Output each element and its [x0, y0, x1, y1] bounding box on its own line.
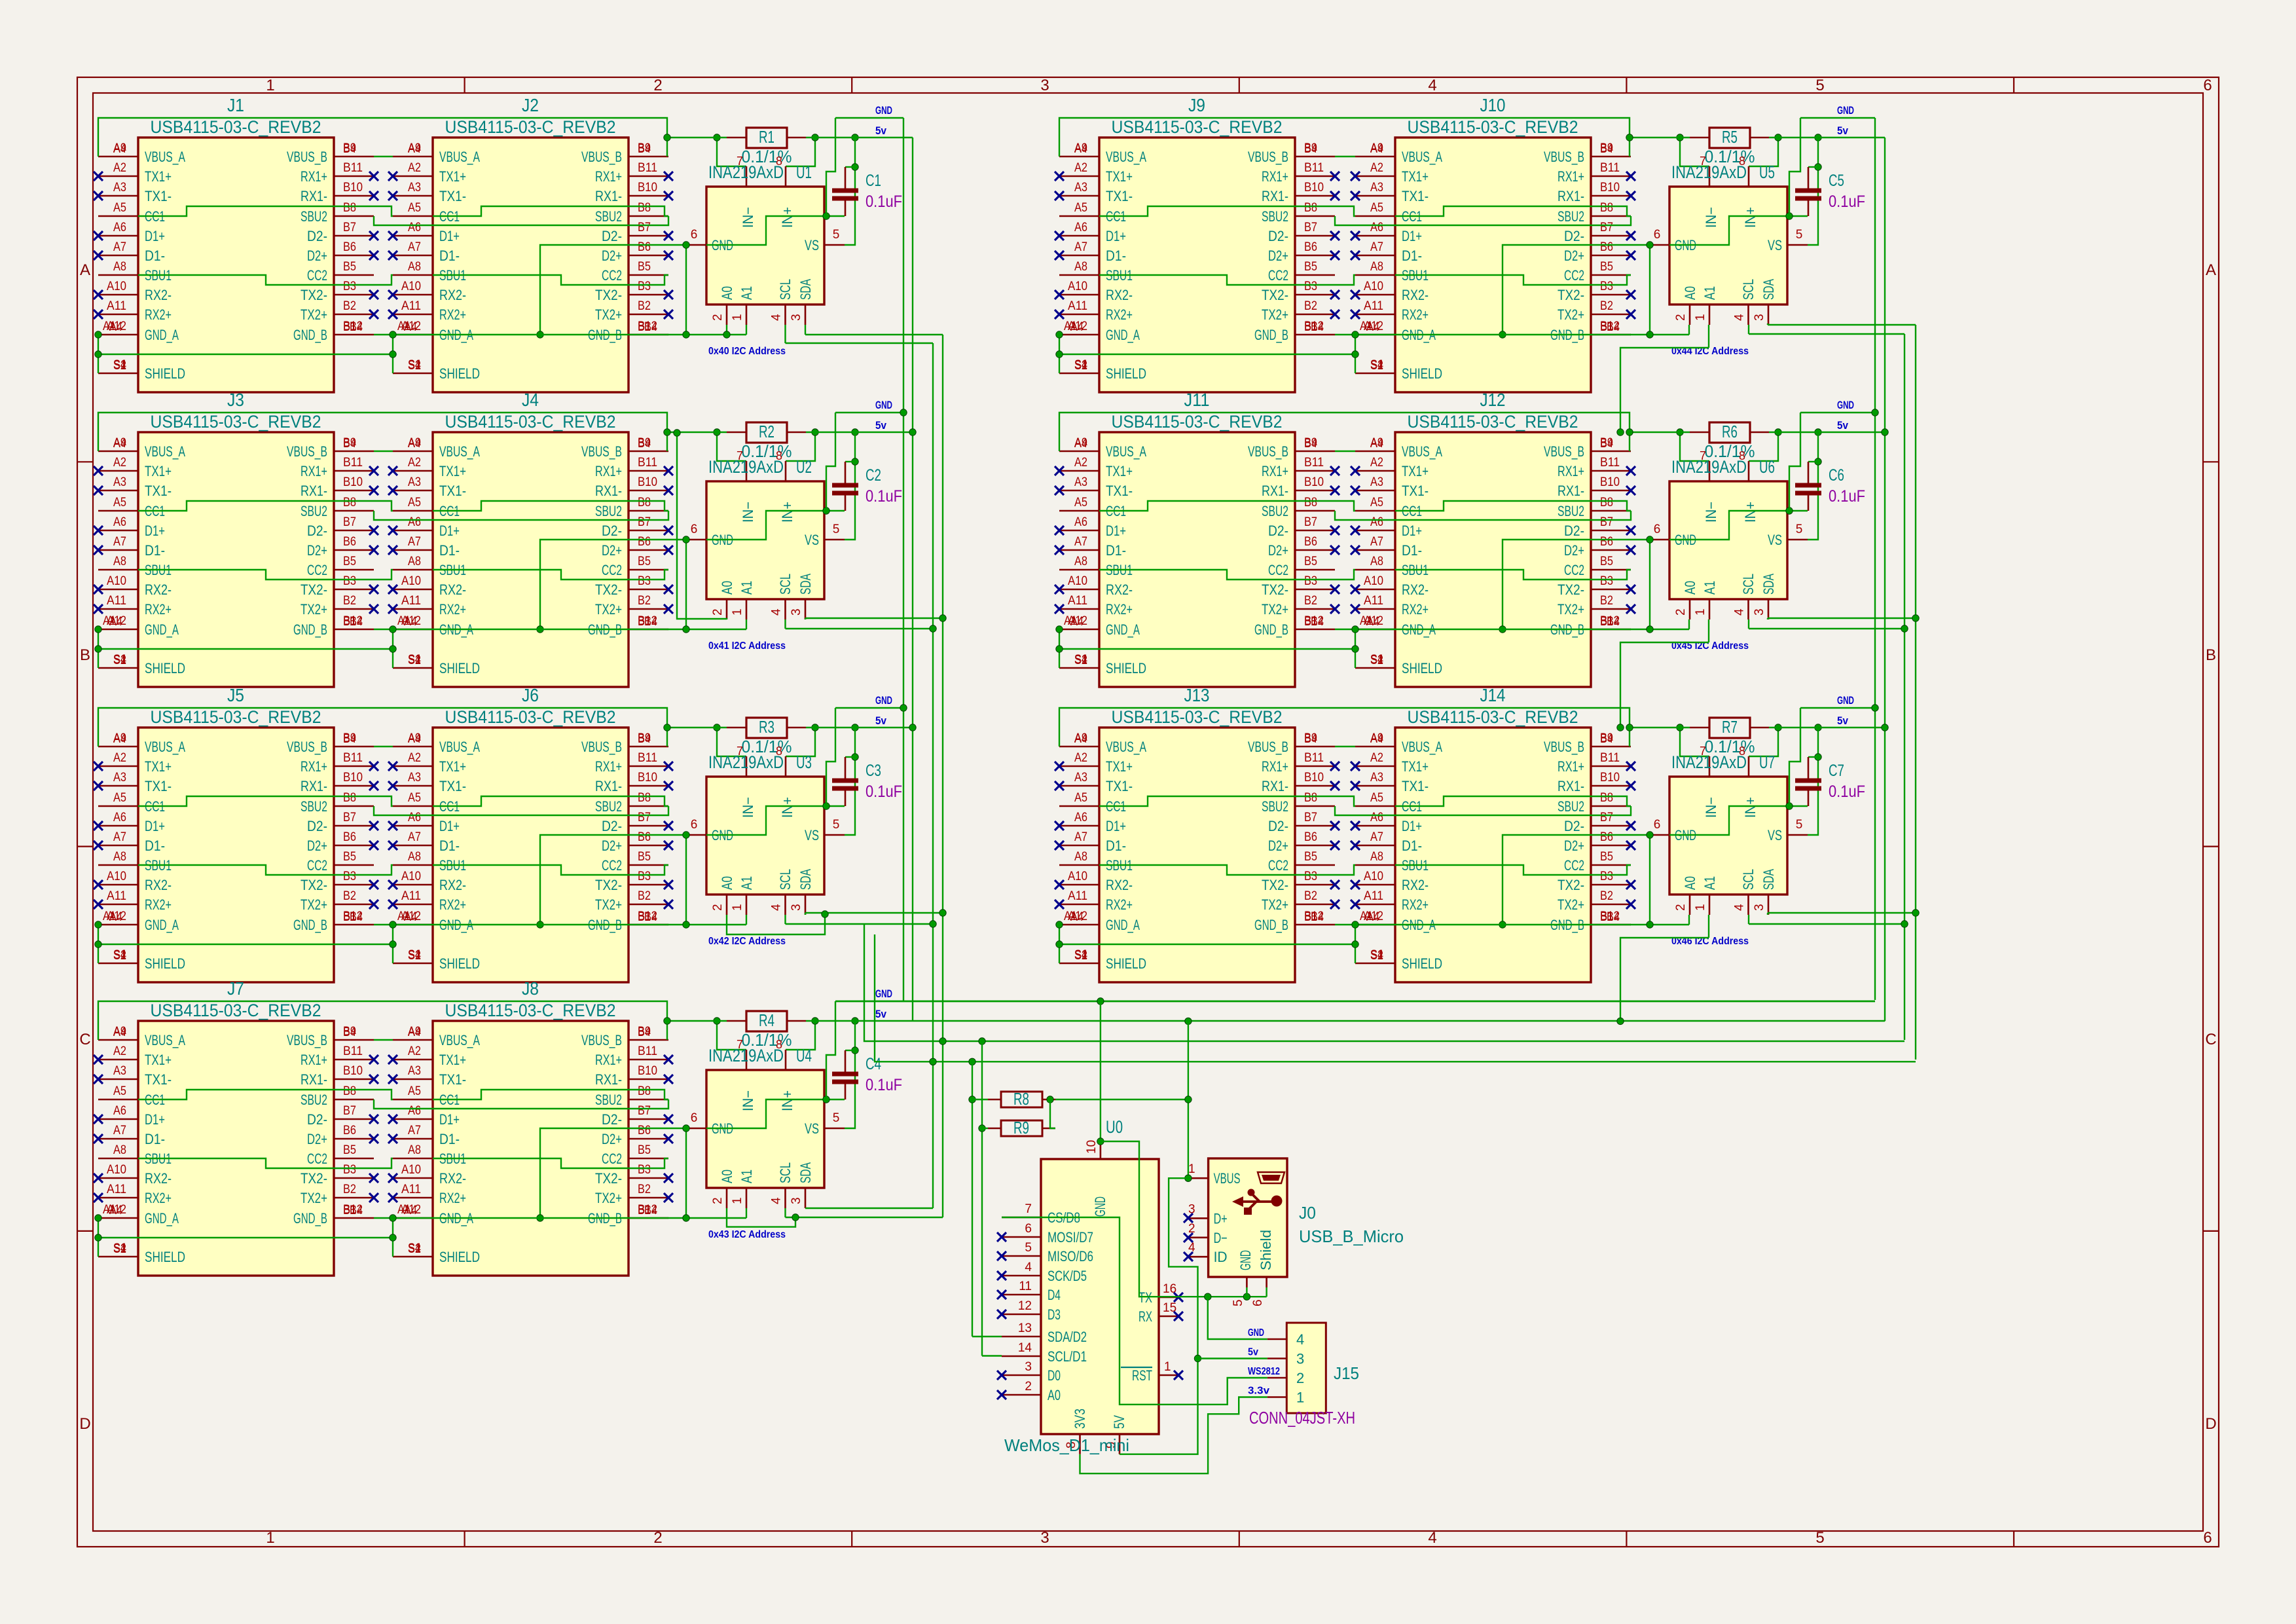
- svg-text:A11: A11: [1068, 889, 1087, 903]
- svg-text:2: 2: [1674, 904, 1688, 911]
- svg-text:J5: J5: [227, 685, 244, 705]
- svg-text:A3: A3: [408, 181, 421, 194]
- svg-text:A11: A11: [1068, 299, 1087, 313]
- svg-text:TX1+: TX1+: [439, 463, 466, 479]
- svg-text:B3: B3: [638, 1163, 651, 1177]
- svg-text:GND: GND: [875, 987, 892, 1000]
- svg-text:A5: A5: [113, 1084, 126, 1098]
- svg-text:B2: B2: [1304, 299, 1317, 313]
- svg-text:1: 1: [731, 904, 744, 911]
- svg-text:4: 4: [1733, 904, 1747, 911]
- svg-text:A7: A7: [408, 535, 421, 549]
- svg-text:A10: A10: [401, 870, 421, 883]
- svg-text:A7: A7: [113, 535, 126, 549]
- svg-text:B10: B10: [638, 475, 657, 489]
- svg-text:B6: B6: [638, 1124, 651, 1137]
- svg-text:B4: B4: [1607, 320, 1620, 334]
- svg-text:IN+: IN+: [779, 207, 795, 228]
- svg-text:1: 1: [731, 608, 744, 616]
- svg-text:USB4115-03-C_REVB2: USB4115-03-C_REVB2: [445, 707, 616, 727]
- svg-text:S4: S4: [113, 653, 126, 667]
- svg-text:C6: C6: [1829, 466, 1844, 485]
- svg-text:B5: B5: [638, 555, 651, 568]
- svg-text:D2-: D2-: [307, 1111, 327, 1128]
- svg-text:TX2-: TX2-: [1558, 287, 1584, 303]
- svg-text:TX2-: TX2-: [301, 581, 327, 598]
- svg-text:RX1-: RX1-: [1262, 778, 1288, 794]
- svg-text:A5: A5: [1370, 201, 1383, 215]
- svg-text:A5: A5: [113, 201, 126, 215]
- svg-text:A4: A4: [408, 1025, 421, 1039]
- svg-text:8: 8: [776, 449, 782, 462]
- svg-text:B4: B4: [1311, 320, 1324, 334]
- svg-text:GND_B: GND_B: [293, 1210, 327, 1227]
- svg-text:4: 4: [1428, 1529, 1436, 1547]
- svg-text:GND: GND: [1237, 1250, 1254, 1270]
- svg-text:TX1+: TX1+: [1106, 463, 1133, 479]
- svg-text:TX2+: TX2+: [595, 896, 622, 913]
- svg-text:0.1uF: 0.1uF: [866, 1076, 902, 1094]
- svg-text:A11: A11: [401, 299, 421, 313]
- svg-text:SCK/D5: SCK/D5: [1048, 1268, 1087, 1284]
- svg-text:A8: A8: [113, 850, 126, 864]
- svg-text:RX2-: RX2-: [439, 1170, 466, 1187]
- svg-text:RX1-: RX1-: [301, 778, 327, 794]
- svg-text:D4: D4: [1048, 1287, 1061, 1303]
- svg-text:A5: A5: [408, 1084, 421, 1098]
- svg-text:A3: A3: [408, 771, 421, 784]
- svg-text:TX: TX: [1139, 1289, 1152, 1306]
- svg-text:B11: B11: [1304, 456, 1324, 470]
- svg-text:A2: A2: [408, 1044, 421, 1058]
- svg-text:GND_B: GND_B: [1254, 917, 1288, 933]
- svg-text:B6: B6: [638, 830, 651, 844]
- svg-text:RX2+: RX2+: [1106, 601, 1133, 618]
- svg-text:B7: B7: [1600, 221, 1613, 234]
- svg-text:A4: A4: [408, 732, 421, 746]
- svg-text:A8: A8: [113, 555, 126, 568]
- svg-text:SDA: SDA: [1760, 869, 1777, 890]
- svg-text:SDA: SDA: [1760, 574, 1777, 595]
- svg-text:5: 5: [1231, 1299, 1245, 1306]
- svg-text:U7: U7: [1759, 752, 1775, 772]
- svg-text:SBU2: SBU2: [1558, 798, 1584, 815]
- svg-text:8: 8: [1739, 449, 1745, 462]
- svg-text:SBU2: SBU2: [1262, 798, 1288, 815]
- svg-text:A1: A1: [738, 286, 755, 300]
- svg-text:D2+: D2+: [1564, 248, 1584, 264]
- svg-text:13: 13: [1018, 1321, 1032, 1335]
- svg-text:C2: C2: [866, 466, 881, 485]
- svg-text:B5: B5: [1304, 260, 1317, 274]
- svg-text:A10: A10: [401, 574, 421, 588]
- svg-text:B10: B10: [638, 771, 657, 784]
- svg-text:A3: A3: [408, 475, 421, 489]
- svg-text:A7: A7: [408, 830, 421, 844]
- svg-text:RX1+: RX1+: [595, 1052, 622, 1068]
- svg-text:A4: A4: [1074, 732, 1087, 746]
- svg-text:A2: A2: [113, 751, 126, 765]
- svg-text:12: 12: [1018, 1299, 1032, 1313]
- svg-text:SBU2: SBU2: [595, 503, 622, 519]
- svg-text:B2: B2: [638, 1183, 651, 1196]
- svg-text:2: 2: [1674, 608, 1688, 616]
- svg-text:TX1-: TX1-: [1402, 188, 1429, 204]
- svg-text:A1: A1: [103, 910, 116, 923]
- svg-text:A10: A10: [1068, 574, 1087, 588]
- svg-text:A6: A6: [113, 1104, 126, 1118]
- svg-text:CC2: CC2: [1564, 857, 1584, 874]
- svg-text:INA219AxD: INA219AxD: [708, 162, 784, 182]
- svg-text:1: 1: [1694, 904, 1707, 911]
- svg-text:1: 1: [266, 1529, 274, 1547]
- svg-text:6: 6: [1654, 228, 1661, 242]
- svg-text:A7: A7: [408, 1124, 421, 1137]
- svg-text:R9: R9: [1013, 1118, 1029, 1137]
- svg-text:VBUS_B: VBUS_B: [287, 739, 327, 755]
- svg-text:A1: A1: [397, 614, 410, 628]
- svg-text:USB4115-03-C_REVB2: USB4115-03-C_REVB2: [151, 1001, 321, 1020]
- svg-text:B5: B5: [638, 260, 651, 274]
- svg-text:VBUS_B: VBUS_B: [1248, 443, 1288, 460]
- svg-text:3: 3: [790, 608, 803, 616]
- svg-text:A1: A1: [1064, 910, 1077, 923]
- svg-text:INA219AxD: INA219AxD: [1671, 162, 1747, 182]
- svg-text:TX2+: TX2+: [595, 306, 622, 323]
- svg-text:R8: R8: [1013, 1089, 1029, 1109]
- svg-text:A5: A5: [408, 496, 421, 509]
- svg-text:VBUS_A: VBUS_A: [145, 1032, 185, 1048]
- svg-text:TX1-: TX1-: [1106, 188, 1133, 204]
- svg-text:VBUS_B: VBUS_B: [581, 1032, 622, 1048]
- svg-text:A1: A1: [103, 320, 116, 333]
- svg-text:B4: B4: [343, 1025, 356, 1039]
- svg-text:A2: A2: [408, 751, 421, 765]
- svg-text:B10: B10: [343, 181, 363, 194]
- svg-text:VS: VS: [1768, 827, 1782, 843]
- svg-text:4: 4: [1733, 608, 1747, 616]
- svg-text:SHIELD: SHIELD: [1402, 365, 1442, 382]
- svg-text:A1: A1: [103, 1203, 116, 1217]
- svg-text:B4: B4: [350, 320, 363, 334]
- svg-text:B10: B10: [1600, 771, 1620, 784]
- svg-text:J3: J3: [227, 390, 244, 410]
- svg-text:A5: A5: [408, 201, 421, 215]
- svg-text:0.1uF: 0.1uF: [866, 487, 902, 506]
- svg-text:A11: A11: [107, 299, 126, 313]
- svg-text:USB4115-03-C_REVB2: USB4115-03-C_REVB2: [1112, 412, 1283, 432]
- svg-text:INA219AxD: INA219AxD: [708, 752, 784, 772]
- svg-text:D2+: D2+: [1564, 542, 1584, 559]
- svg-text:2: 2: [653, 1529, 662, 1547]
- svg-text:A1: A1: [738, 1170, 755, 1183]
- svg-text:B4: B4: [638, 732, 651, 746]
- svg-text:SHIELD: SHIELD: [145, 955, 185, 972]
- svg-text:8: 8: [776, 745, 782, 758]
- svg-text:D: D: [2205, 1415, 2216, 1433]
- svg-text:7: 7: [737, 155, 743, 168]
- svg-text:B6: B6: [343, 830, 356, 844]
- svg-text:A3: A3: [408, 1064, 421, 1078]
- svg-text:D2+: D2+: [307, 1131, 327, 1147]
- svg-text:A7: A7: [113, 240, 126, 254]
- svg-text:B8: B8: [1304, 791, 1317, 805]
- svg-text:A7: A7: [1074, 830, 1087, 844]
- svg-text:Shield: Shield: [1258, 1230, 1274, 1270]
- svg-text:SCL: SCL: [1740, 574, 1757, 595]
- svg-text:B8: B8: [1600, 201, 1613, 215]
- svg-text:VBUS_B: VBUS_B: [581, 443, 622, 460]
- svg-text:TX2-: TX2-: [595, 1170, 622, 1187]
- svg-text:SBU2: SBU2: [301, 208, 327, 225]
- svg-text:VBUS_A: VBUS_A: [1106, 739, 1146, 755]
- svg-text:3: 3: [1040, 77, 1049, 94]
- svg-text:D2-: D2-: [602, 818, 622, 834]
- svg-text:C1: C1: [866, 172, 881, 190]
- svg-text:VBUS_B: VBUS_B: [1544, 739, 1584, 755]
- svg-text:CC2: CC2: [1268, 267, 1288, 284]
- svg-text:VBUS_B: VBUS_B: [287, 149, 327, 165]
- svg-text:B10: B10: [1600, 181, 1620, 194]
- svg-text:TX1-: TX1-: [145, 483, 172, 499]
- svg-text:D1+: D1+: [439, 1111, 460, 1128]
- svg-text:B5: B5: [343, 555, 356, 568]
- svg-text:A6: A6: [408, 515, 421, 529]
- svg-text:SHIELD: SHIELD: [439, 1249, 480, 1265]
- svg-text:8: 8: [776, 155, 782, 168]
- svg-text:SBU2: SBU2: [595, 208, 622, 225]
- svg-text:D1+: D1+: [1106, 818, 1126, 834]
- svg-text:J15: J15: [1334, 1363, 1359, 1383]
- svg-text:U0: U0: [1106, 1117, 1123, 1137]
- svg-text:B8: B8: [1600, 496, 1613, 509]
- svg-text:GND: GND: [1837, 399, 1854, 411]
- svg-text:D3: D3: [1048, 1306, 1061, 1323]
- svg-text:IN+: IN+: [779, 1090, 795, 1111]
- svg-text:8: 8: [1739, 745, 1745, 758]
- svg-text:TX2+: TX2+: [1262, 601, 1288, 618]
- svg-text:5: 5: [1796, 523, 1803, 536]
- svg-text:RX2+: RX2+: [1106, 306, 1133, 323]
- svg-text:A1: A1: [1702, 876, 1718, 890]
- svg-text:8: 8: [776, 1038, 782, 1051]
- svg-text:GND_A: GND_A: [145, 327, 179, 343]
- svg-text:B3: B3: [343, 280, 356, 293]
- svg-text:TX1+: TX1+: [1402, 168, 1429, 185]
- svg-text:VBUS_A: VBUS_A: [439, 1032, 480, 1048]
- svg-text:IN+: IN+: [779, 502, 795, 523]
- svg-text:J2: J2: [522, 95, 539, 115]
- svg-text:RX2+: RX2+: [145, 896, 172, 913]
- svg-text:A8: A8: [1370, 260, 1383, 274]
- svg-text:SDA/D2: SDA/D2: [1048, 1329, 1087, 1345]
- svg-text:A2: A2: [1370, 161, 1383, 175]
- svg-text:VBUS: VBUS: [1214, 1170, 1241, 1187]
- svg-text:D2+: D2+: [602, 1131, 622, 1147]
- svg-text:B7: B7: [343, 1104, 356, 1118]
- svg-text:A6: A6: [408, 811, 421, 824]
- svg-text:USB4115-03-C_REVB2: USB4115-03-C_REVB2: [151, 117, 321, 137]
- svg-text:B8: B8: [1304, 201, 1317, 215]
- svg-text:A4: A4: [408, 142, 421, 156]
- svg-text:A11: A11: [107, 889, 126, 903]
- svg-text:A0: A0: [719, 876, 735, 890]
- svg-text:RX2-: RX2-: [1402, 581, 1429, 598]
- svg-text:TX1-: TX1-: [439, 1071, 466, 1088]
- svg-text:A4: A4: [113, 732, 126, 746]
- svg-text:B7: B7: [1304, 811, 1317, 824]
- svg-text:RX1+: RX1+: [1262, 758, 1288, 775]
- svg-text:3: 3: [1296, 1351, 1304, 1367]
- svg-text:RX2-: RX2-: [1402, 287, 1429, 303]
- svg-text:B4: B4: [644, 320, 657, 334]
- svg-text:A6: A6: [408, 221, 421, 234]
- svg-text:RX1-: RX1-: [1558, 483, 1584, 499]
- svg-text:D0: D0: [1048, 1367, 1061, 1384]
- svg-text:6: 6: [691, 523, 698, 536]
- svg-text:B3: B3: [1600, 870, 1613, 883]
- svg-text:B4: B4: [1304, 732, 1317, 746]
- svg-text:TX1+: TX1+: [1106, 168, 1133, 185]
- svg-text:A11: A11: [401, 889, 421, 903]
- svg-text:5: 5: [1025, 1241, 1032, 1255]
- svg-text:TX1-: TX1-: [1106, 778, 1133, 794]
- svg-text:GND_A: GND_A: [145, 1210, 179, 1227]
- svg-text:INA219AxD: INA219AxD: [708, 457, 784, 477]
- svg-text:B8: B8: [343, 201, 356, 215]
- svg-text:S4: S4: [408, 358, 421, 372]
- svg-text:SBU2: SBU2: [1262, 503, 1288, 519]
- svg-text:VS: VS: [805, 532, 819, 548]
- svg-text:4: 4: [1025, 1261, 1032, 1274]
- svg-text:INA219AxD: INA219AxD: [1671, 752, 1747, 772]
- svg-text:RX1-: RX1-: [1558, 778, 1584, 794]
- svg-text:0x43 I2C Address: 0x43 I2C Address: [708, 1229, 786, 1240]
- svg-text:J13: J13: [1184, 685, 1210, 705]
- svg-text:B6: B6: [343, 535, 356, 549]
- svg-text:A10: A10: [1068, 870, 1087, 883]
- svg-text:B6: B6: [1304, 240, 1317, 254]
- svg-text:4: 4: [1428, 77, 1436, 94]
- svg-text:RX2-: RX2-: [145, 581, 172, 598]
- svg-text:5v: 5v: [1837, 419, 1848, 432]
- svg-text:RX1-: RX1-: [301, 188, 327, 204]
- svg-text:B4: B4: [1311, 910, 1324, 924]
- svg-text:RX1+: RX1+: [595, 168, 622, 185]
- svg-text:A4: A4: [113, 1025, 126, 1039]
- svg-text:A1: A1: [397, 910, 410, 923]
- svg-text:MOSI/D7: MOSI/D7: [1048, 1229, 1093, 1246]
- svg-text:B: B: [2206, 646, 2216, 664]
- svg-text:R4: R4: [759, 1010, 774, 1030]
- svg-text:5v: 5v: [875, 124, 886, 137]
- svg-text:B3: B3: [343, 870, 356, 883]
- svg-text:0.1uF: 0.1uF: [1829, 783, 1865, 801]
- svg-text:D1+: D1+: [145, 1111, 165, 1128]
- svg-text:RX1+: RX1+: [595, 758, 622, 775]
- svg-text:0.1uF: 0.1uF: [866, 783, 902, 801]
- svg-text:SCL: SCL: [777, 574, 793, 595]
- svg-text:B6: B6: [343, 1124, 356, 1137]
- svg-text:D1-: D1-: [439, 838, 460, 854]
- svg-text:C5: C5: [1829, 172, 1844, 190]
- svg-text:B11: B11: [1600, 751, 1620, 765]
- svg-text:WeMos_D1_mini: WeMos_D1_mini: [1004, 1435, 1129, 1455]
- svg-text:A5: A5: [408, 791, 421, 805]
- svg-text:CC2: CC2: [1268, 562, 1288, 578]
- svg-text:B2: B2: [638, 299, 651, 313]
- svg-text:TX2-: TX2-: [1558, 877, 1584, 893]
- svg-text:S4: S4: [1370, 653, 1383, 667]
- svg-text:D2+: D2+: [307, 542, 327, 559]
- svg-text:6: 6: [1251, 1299, 1265, 1306]
- svg-text:6: 6: [691, 228, 698, 242]
- svg-text:B10: B10: [1304, 771, 1324, 784]
- svg-text:A11: A11: [107, 1183, 126, 1196]
- svg-text:B7: B7: [1304, 515, 1317, 529]
- svg-text:7: 7: [737, 745, 743, 758]
- svg-text:B2: B2: [1304, 889, 1317, 903]
- svg-text:B5: B5: [343, 850, 356, 864]
- svg-text:B6: B6: [1600, 240, 1613, 254]
- svg-text:RX1+: RX1+: [301, 168, 327, 185]
- svg-text:RX1-: RX1-: [595, 483, 622, 499]
- svg-text:B10: B10: [1304, 181, 1324, 194]
- svg-text:2: 2: [711, 904, 725, 911]
- svg-text:A1: A1: [397, 320, 410, 333]
- svg-text:SCL: SCL: [777, 279, 793, 300]
- svg-text:CONN_04JST-XH: CONN_04JST-XH: [1249, 1408, 1355, 1428]
- svg-text:IN−: IN−: [740, 502, 756, 523]
- svg-text:B2: B2: [1600, 889, 1613, 903]
- svg-text:A11: A11: [401, 594, 421, 608]
- svg-text:4: 4: [770, 904, 784, 911]
- svg-text:TX2-: TX2-: [595, 287, 622, 303]
- svg-text:U3: U3: [796, 752, 812, 772]
- svg-text:6: 6: [1654, 818, 1661, 832]
- svg-text:SDA: SDA: [797, 574, 814, 595]
- svg-text:6: 6: [1654, 523, 1661, 536]
- svg-text:A8: A8: [113, 1143, 126, 1157]
- svg-text:A6: A6: [1074, 515, 1087, 529]
- svg-text:TX1-: TX1-: [145, 778, 172, 794]
- svg-text:J14: J14: [1480, 685, 1506, 705]
- svg-text:VS: VS: [1768, 532, 1782, 548]
- svg-text:A1: A1: [1064, 320, 1077, 333]
- svg-text:A8: A8: [408, 260, 421, 274]
- svg-text:VS: VS: [805, 237, 819, 253]
- svg-text:J11: J11: [1184, 390, 1210, 410]
- svg-text:TX1+: TX1+: [1106, 758, 1133, 775]
- svg-text:A10: A10: [401, 1163, 421, 1177]
- svg-text:RX2+: RX2+: [439, 1190, 466, 1206]
- svg-text:1: 1: [1188, 1162, 1195, 1176]
- svg-text:A5: A5: [113, 791, 126, 805]
- svg-text:1: 1: [731, 1197, 744, 1204]
- svg-text:A4: A4: [113, 142, 126, 156]
- svg-text:7: 7: [1025, 1202, 1032, 1216]
- svg-text:4: 4: [1296, 1331, 1304, 1348]
- svg-text:J9: J9: [1188, 95, 1205, 115]
- svg-text:B5: B5: [1304, 850, 1317, 864]
- svg-text:7: 7: [1700, 449, 1706, 462]
- svg-text:D: D: [79, 1415, 90, 1433]
- svg-text:B3: B3: [638, 280, 651, 293]
- svg-text:GND: GND: [875, 399, 892, 411]
- svg-text:D2+: D2+: [1268, 248, 1288, 264]
- svg-text:U1: U1: [796, 162, 812, 182]
- svg-text:VBUS_B: VBUS_B: [1248, 739, 1288, 755]
